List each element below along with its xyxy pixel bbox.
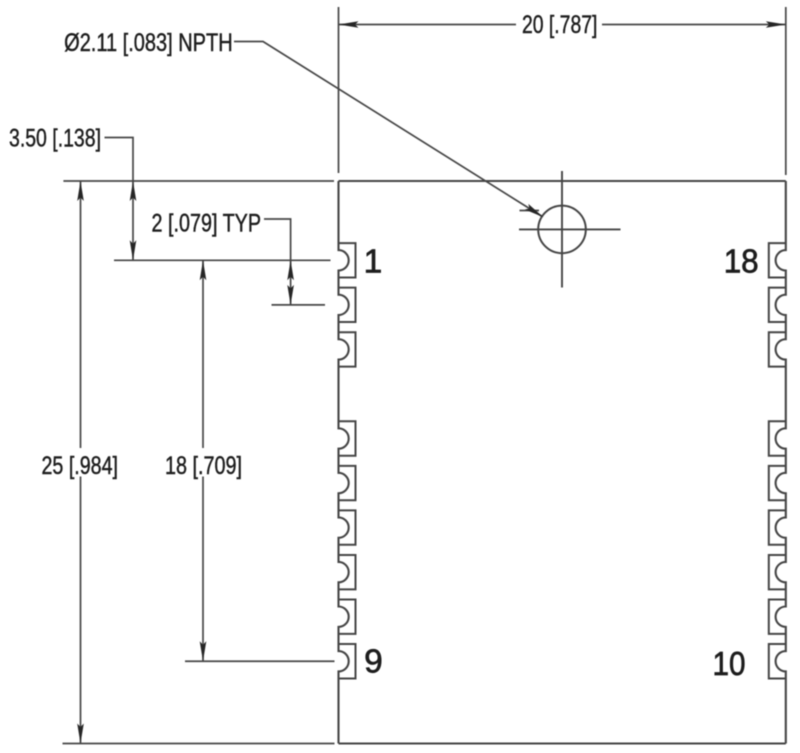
dim 2 TYP bottom arrowhead	[287, 285, 294, 305]
short line at leader arrow	[520, 210, 540, 212]
svg-text:Ø2.11 [.083] NPTH: Ø2.11 [.083] NPTH	[64, 29, 233, 57]
dim 18 bottom arrowhead	[200, 641, 207, 661]
dim 20 line	[339, 24, 517, 26]
module left edge with castellation arcs	[339, 181, 349, 744]
pad pin 11	[769, 600, 786, 634]
dim 20 extension line right	[785, 7, 787, 175]
module top edge	[339, 180, 786, 182]
svg-text:20 [.787]: 20 [.787]	[522, 11, 598, 39]
dim 20 extension line left	[338, 7, 340, 173]
dim 25 bottom arrowhead	[77, 724, 84, 744]
svg-text:2 [.079] TYP: 2 [.079] TYP	[152, 210, 262, 238]
pad pin 10	[769, 644, 786, 678]
pad pin 9	[339, 644, 356, 678]
pad pin 8	[339, 600, 356, 634]
dim 2 TYP hook and line	[264, 219, 291, 305]
svg-text:1: 1	[364, 244, 383, 281]
NPTH leader line	[234, 42, 542, 217]
pad pin 13	[769, 510, 786, 544]
pad pin 2	[339, 288, 356, 322]
svg-text:25 [.984]: 25 [.984]	[42, 452, 119, 480]
pad pin 1	[339, 243, 356, 277]
dim 18 line	[202, 260, 204, 448]
pad9 center extension line	[185, 660, 335, 662]
pad pin 12	[769, 555, 786, 589]
pad pin 3	[339, 332, 356, 366]
bottom edge extension line	[63, 743, 335, 745]
hole vertical centerline	[561, 171, 563, 288]
hole horizontal centerline	[519, 228, 621, 230]
dim 3.50 bottom arrowhead	[130, 240, 137, 260]
svg-text:18: 18	[724, 244, 759, 281]
dim 2 TYP top arrowhead	[287, 260, 294, 280]
pad pin 15	[769, 421, 786, 455]
pad pin 17	[769, 288, 786, 322]
pad1 center extension line	[114, 259, 331, 261]
pad pin 4	[339, 421, 356, 455]
dim 3.50 top arrowhead	[130, 181, 137, 201]
svg-text:18 [.709]: 18 [.709]	[165, 452, 242, 480]
dim 20 right arrowhead	[766, 21, 786, 28]
svg-text:3.50 [.138]: 3.50 [.138]	[9, 125, 101, 153]
module bottom edge	[339, 742, 786, 744]
dim 3.50 hook and line	[105, 138, 134, 261]
NPTH leader arrowhead	[525, 204, 544, 217]
svg-text:9: 9	[364, 644, 383, 681]
pad pin 7	[339, 555, 356, 589]
svg-text:10: 10	[713, 646, 746, 683]
dim 25 line	[80, 181, 82, 448]
dim 18 top arrowhead	[200, 260, 207, 280]
pad pin 6	[339, 510, 356, 544]
pad pin 5	[339, 466, 356, 500]
pad pin 14	[769, 466, 786, 500]
module right edge with castellation arcs	[776, 181, 786, 744]
NPTH hole circle	[538, 206, 586, 254]
dim 25 top arrowhead	[77, 181, 84, 201]
top edge extension line	[63, 180, 334, 182]
pad pin 18	[769, 243, 786, 277]
pad pin 16	[769, 332, 786, 366]
dim 20 left arrowhead	[339, 21, 359, 28]
pad2 center extension line	[272, 304, 326, 306]
